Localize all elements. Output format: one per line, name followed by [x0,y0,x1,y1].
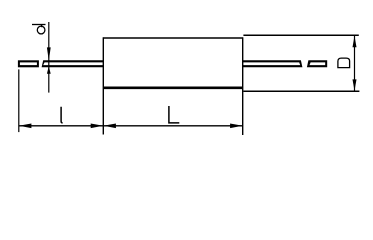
dimension d: label glyph [37,24,45,34]
dimension D: bottom arrowhead [353,79,357,91]
dimension d: dimension line crossing the lead [48,60,50,67]
dimension D: top arrowhead [353,36,357,48]
dimension D: bottom extension line [243,90,359,92]
dimension l: left arrowhead [19,124,32,129]
dimension l: right arrowhead [91,124,104,129]
dimension D: vertical dimension line [354,36,356,91]
dimension D: label glyph (rotated D) [338,58,350,68]
dimension d: shelf line [32,24,46,26]
right lead wire [243,60,303,67]
left lead wire [42,60,104,67]
dimension L: left arrowhead [103,124,116,129]
dimension d: lower dimension line [48,67,50,93]
dimension L: label glyph [169,106,179,123]
dimension l: label glyph [61,107,63,123]
dimension L: right arrowhead [230,124,243,129]
dimension l: left extension line [18,69,20,132]
dimension d: upper dimension line [48,22,50,61]
dimension D: top extension line [243,34,358,36]
left lead end segment (broken-off piece) [18,60,39,67]
component body (rectangle) [103,37,242,135]
dimension d: lower arrowhead [47,66,51,74]
dimension l/L: horizontal dimension line [19,125,243,127]
dimension d: upper arrowhead [47,47,51,60]
right lead end segment (broken-off piece) [307,60,327,67]
